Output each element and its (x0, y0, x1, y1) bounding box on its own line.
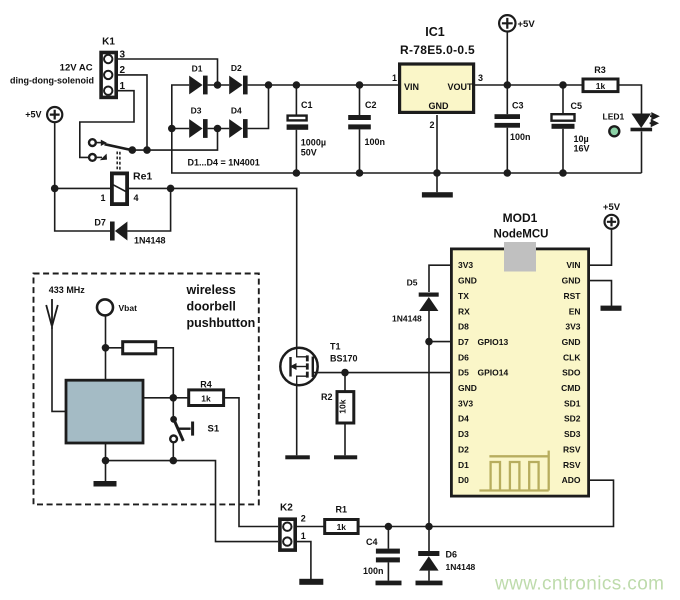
svg-text:VIN: VIN (404, 82, 419, 92)
svg-text:GND: GND (562, 337, 581, 347)
svg-text:1: 1 (392, 73, 397, 83)
svg-text:10k: 10k (337, 399, 347, 413)
svg-text:www.cntronics.com: www.cntronics.com (494, 574, 664, 595)
svg-text:LED1: LED1 (603, 112, 625, 122)
svg-text:12V AC: 12V AC (60, 63, 93, 74)
svg-text:2: 2 (429, 120, 434, 130)
svg-text:T1: T1 (330, 342, 341, 352)
svg-text:EN: EN (569, 306, 581, 316)
svg-text:D4: D4 (231, 106, 242, 116)
svg-text:1: 1 (120, 81, 126, 92)
svg-text:50V: 50V (301, 147, 317, 157)
svg-text:433 MHz: 433 MHz (49, 285, 86, 295)
svg-text:GND: GND (429, 101, 450, 111)
svg-text:4: 4 (134, 193, 139, 203)
svg-text:R3: R3 (594, 65, 606, 75)
svg-text:3V3: 3V3 (458, 260, 473, 270)
svg-text:SDO: SDO (562, 368, 581, 378)
svg-text:K2: K2 (280, 503, 293, 514)
svg-text:S1: S1 (208, 424, 220, 435)
svg-text:1k: 1k (201, 394, 211, 404)
svg-text:1: 1 (301, 531, 306, 541)
svg-text:1: 1 (100, 193, 105, 203)
svg-text:1N4148: 1N4148 (134, 236, 166, 246)
svg-text:C1: C1 (301, 100, 313, 110)
svg-text:D7: D7 (94, 218, 106, 228)
svg-text:+5V: +5V (25, 110, 41, 120)
svg-text:NodeMCU: NodeMCU (494, 229, 549, 241)
svg-text:RSV: RSV (563, 460, 581, 470)
svg-text:3V3: 3V3 (458, 398, 473, 408)
svg-text:D6: D6 (446, 550, 458, 560)
svg-text:+5V: +5V (603, 202, 621, 213)
svg-text:D2: D2 (458, 444, 469, 454)
svg-text:3: 3 (120, 50, 126, 61)
svg-text:Re1: Re1 (133, 171, 152, 183)
svg-text:SD2: SD2 (564, 414, 581, 424)
svg-text:2: 2 (301, 513, 306, 523)
svg-text:1N4148: 1N4148 (446, 562, 476, 572)
svg-text:GPIO14: GPIO14 (478, 368, 509, 378)
svg-text:1k: 1k (596, 81, 606, 91)
svg-text:CMD: CMD (561, 383, 580, 393)
svg-text:ADO: ADO (562, 475, 581, 485)
svg-text:pushbutton: pushbutton (187, 316, 256, 330)
svg-text:wireless: wireless (186, 283, 236, 297)
svg-text:Vbat: Vbat (119, 303, 138, 313)
svg-text:SD3: SD3 (564, 429, 581, 439)
svg-text:D4: D4 (458, 414, 469, 424)
svg-text:100n: 100n (363, 566, 384, 576)
svg-text:K1: K1 (102, 37, 115, 48)
svg-text:BS170: BS170 (330, 354, 358, 364)
svg-text:D6: D6 (458, 352, 469, 362)
svg-text:IC1: IC1 (425, 25, 445, 39)
svg-text:RST: RST (564, 291, 582, 301)
svg-text:R4: R4 (200, 380, 212, 390)
svg-text:3V3: 3V3 (565, 322, 580, 332)
svg-text:D3: D3 (458, 429, 469, 439)
svg-text:GND: GND (562, 276, 581, 286)
svg-text:CLK: CLK (563, 352, 581, 362)
svg-text:1000µ: 1000µ (301, 137, 326, 147)
svg-text:VIN: VIN (566, 260, 580, 270)
svg-text:D2: D2 (231, 63, 242, 73)
svg-text:10µ: 10µ (574, 134, 589, 144)
svg-text:D5: D5 (407, 278, 418, 288)
svg-text:D3: D3 (191, 106, 202, 116)
svg-text:D5: D5 (458, 368, 469, 378)
svg-text:R2: R2 (321, 392, 333, 402)
svg-text:C3: C3 (512, 101, 524, 111)
svg-text:GND: GND (458, 276, 477, 286)
svg-text:D0: D0 (458, 475, 469, 485)
svg-text:GPIO13: GPIO13 (478, 337, 509, 347)
svg-text:100n: 100n (365, 137, 386, 147)
svg-text:GND: GND (458, 383, 477, 393)
svg-text:16V: 16V (574, 144, 590, 154)
svg-text:D1: D1 (458, 460, 469, 470)
svg-text:+5V: +5V (518, 19, 536, 30)
svg-text:C5: C5 (571, 101, 583, 111)
svg-text:C2: C2 (365, 100, 377, 110)
svg-text:100n: 100n (510, 132, 531, 142)
svg-text:D8: D8 (458, 322, 469, 332)
svg-text:MOD1: MOD1 (503, 211, 538, 225)
svg-text:R-78E5.0-0.5: R-78E5.0-0.5 (400, 43, 475, 57)
svg-text:3: 3 (478, 73, 483, 83)
svg-text:SD1: SD1 (564, 398, 581, 408)
svg-text:ding-dong-solenoid: ding-dong-solenoid (10, 76, 94, 86)
svg-text:C4: C4 (366, 537, 378, 547)
svg-text:R1: R1 (336, 505, 348, 515)
svg-text:2: 2 (120, 65, 126, 76)
svg-text:RSV: RSV (563, 444, 581, 454)
svg-text:1k: 1k (337, 522, 347, 532)
svg-text:D1: D1 (192, 64, 203, 74)
svg-text:RX: RX (458, 306, 470, 316)
svg-text:TX: TX (458, 291, 469, 301)
svg-text:doorbell: doorbell (187, 300, 236, 314)
svg-text:VOUT: VOUT (447, 82, 473, 92)
svg-text:D1...D4 = 1N4001: D1...D4 = 1N4001 (188, 158, 260, 168)
svg-text:1N4148: 1N4148 (392, 314, 422, 324)
svg-text:D7: D7 (458, 337, 469, 347)
